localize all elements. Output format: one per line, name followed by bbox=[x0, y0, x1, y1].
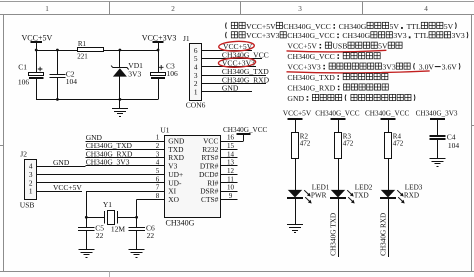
pin number 13 (U1 right) bbox=[227, 159, 235, 167]
svg-text:8: 8 bbox=[156, 192, 160, 200]
junction node top rail / VD1 bbox=[119, 49, 122, 52]
ground of C5 bbox=[78, 250, 94, 258]
pin number 6 (U1 left) bbox=[156, 175, 160, 183]
svg-text:CH340G: CH340G bbox=[339, 22, 367, 31]
wire U1 pin 4 V3 bbox=[86, 165, 165, 167]
svg-text:GND: GND bbox=[53, 158, 70, 167]
wire J1 pin 4 bbox=[202, 66, 256, 68]
pin number 4 (U1 left) bbox=[156, 159, 160, 167]
svg-text:CH340G_VCC: CH340G_VCC bbox=[365, 110, 410, 118]
svg-text:3.6V: 3.6V bbox=[442, 63, 458, 72]
wire LED1 to ground bbox=[295, 198, 297, 224]
svg-text:GND: GND bbox=[222, 84, 239, 93]
wire top rail left bbox=[36, 50, 77, 52]
pin number 11 (U1 right) bbox=[227, 175, 234, 183]
LED LED2 (TXD) bbox=[330, 184, 373, 204]
resistor R2 value 472 bbox=[292, 133, 311, 159]
svg-text:VCC+5V: VCC+5V bbox=[53, 183, 82, 192]
junction node bottom rail / C2 bbox=[56, 98, 59, 101]
net label CH340G_TXD (U1 pin 2) bbox=[86, 141, 133, 150]
svg-text:1: 1 bbox=[156, 134, 160, 142]
capacitor C5 value 22 bbox=[78, 217, 104, 249]
svg-text:5V: 5V bbox=[389, 22, 399, 31]
red annotation ellipse around VCC+3V3 bbox=[218, 57, 256, 68]
wire J2 pin 3 to U1 UD+ bbox=[36, 174, 164, 176]
capacitor C1 value 106 (polarized) bbox=[18, 50, 44, 99]
pin number 9 (U1 right) bbox=[229, 192, 233, 200]
net label CH340G_RXD (J1 pin 2) bbox=[222, 75, 270, 84]
wire J2 pin 1 VCC+5V bbox=[36, 191, 82, 193]
wire R2 to LED1 bbox=[295, 158, 297, 190]
net label CH340G TXD (vertical) bbox=[330, 213, 338, 256]
wire U1 pin 1 GND bbox=[86, 141, 165, 143]
pin stub 15 (U1 right) bbox=[221, 149, 238, 151]
pin number 14 (U1 right) bbox=[227, 150, 235, 158]
LED LED3 (RXD) bbox=[380, 184, 423, 204]
note line 7 bbox=[287, 83, 388, 92]
net label CH340G RXD (vertical) bbox=[380, 213, 388, 256]
note line 3 bbox=[287, 42, 402, 51]
svg-text:106: 106 bbox=[18, 78, 30, 87]
svg-text:VCC+5V: VCC+5V bbox=[22, 33, 53, 42]
wire top rail right bbox=[104, 50, 159, 52]
svg-text:VCC+5V: VCC+5V bbox=[287, 42, 317, 51]
wire bottom rail bbox=[36, 99, 158, 101]
svg-text:2: 2 bbox=[171, 5, 175, 13]
resistor R4 value 472 bbox=[385, 133, 404, 159]
pin number 1 (U1 left) bbox=[156, 134, 160, 142]
svg-text:104: 104 bbox=[66, 77, 78, 86]
power symbol CH340G_VCC (R4) bbox=[365, 110, 410, 133]
svg-text:RXD: RXD bbox=[404, 192, 419, 200]
svg-text:CH340G_VCC: CH340G_VCC bbox=[287, 52, 334, 61]
wire LED2 to CH340G_TXD bbox=[338, 198, 340, 257]
pin stub 9 (U1 right) bbox=[221, 199, 238, 201]
svg-text:TTL: TTL bbox=[407, 22, 421, 31]
svg-text:3V3: 3V3 bbox=[452, 31, 465, 40]
svg-text:5V: 5V bbox=[378, 42, 388, 51]
svg-text:CH340G_RXD: CH340G_RXD bbox=[287, 83, 335, 92]
junction node top rail / C3 bbox=[157, 49, 160, 52]
svg-text:CH340G_VCC: CH340G_VCC bbox=[287, 31, 334, 40]
svg-text:J2: J2 bbox=[20, 149, 27, 158]
svg-text:PWR: PWR bbox=[311, 192, 327, 200]
svg-text:3V3: 3V3 bbox=[382, 63, 395, 72]
svg-text:CH340G: CH340G bbox=[166, 219, 195, 228]
svg-text:3V3: 3V3 bbox=[128, 69, 141, 78]
pin number 8 (U1 left) bbox=[156, 192, 160, 200]
svg-text:CH340G_3V3: CH340G_3V3 bbox=[86, 158, 130, 167]
svg-text:C4: C4 bbox=[447, 132, 456, 141]
ground of power section bbox=[112, 99, 128, 116]
svg-text:CH340G RXD: CH340G RXD bbox=[380, 213, 388, 256]
svg-text:221: 221 bbox=[77, 52, 88, 60]
wire LED3 to CH340G_RXD bbox=[388, 198, 390, 257]
capacitor C4 value 104 bbox=[430, 132, 460, 158]
wire U1 pin 2 TXD bbox=[86, 149, 165, 151]
net label VCC+5V (J1 pin 6) bbox=[223, 42, 253, 51]
svg-text:VCC+5V: VCC+5V bbox=[246, 22, 276, 31]
red underline note line 3 bbox=[287, 50, 387, 52]
svg-text:VCC+3V3: VCC+3V3 bbox=[287, 63, 321, 72]
net label CH340G_3V3 (U1 pin 4) bbox=[86, 158, 130, 167]
svg-text:VCC+3V3: VCC+3V3 bbox=[246, 31, 280, 40]
ground of C6 bbox=[129, 250, 145, 258]
note line 2 bbox=[226, 31, 468, 40]
net label GND (J1 pin 1) bbox=[222, 84, 239, 93]
note line 4 bbox=[287, 52, 380, 61]
svg-text:XO: XO bbox=[168, 195, 179, 204]
svg-text:2: 2 bbox=[156, 142, 160, 150]
wire J1 pin 5 bbox=[202, 58, 262, 60]
wire J1 pin 2 bbox=[202, 83, 266, 85]
svg-text:12M: 12M bbox=[111, 224, 126, 233]
ground of LED1 bbox=[287, 225, 303, 233]
capacitor C3 value 106 (polarized) bbox=[151, 50, 179, 99]
capacitor C2 value 104 bbox=[49, 50, 77, 99]
svg-text:R1: R1 bbox=[78, 40, 87, 48]
red annotation ellipse around VCC+5V bbox=[219, 41, 255, 52]
svg-text:4: 4 bbox=[424, 5, 428, 13]
svg-text:CH340G_VCC: CH340G_VCC bbox=[223, 126, 268, 134]
pin stub 12 (U1 right) bbox=[221, 174, 238, 176]
svg-text:3.0V: 3.0V bbox=[419, 63, 435, 72]
svg-text:104: 104 bbox=[448, 141, 460, 150]
svg-text:106: 106 bbox=[167, 69, 179, 78]
resistor R3 value 472 bbox=[335, 133, 354, 159]
svg-text:USB: USB bbox=[332, 42, 347, 51]
svg-text:LED1: LED1 bbox=[312, 184, 330, 192]
connector J2 USB bbox=[20, 149, 37, 209]
svg-text:22: 22 bbox=[147, 231, 155, 240]
svg-text:22: 22 bbox=[96, 231, 104, 240]
pin number 5 (U1 left) bbox=[156, 167, 160, 175]
svg-text:5: 5 bbox=[156, 167, 160, 175]
svg-text:7: 7 bbox=[156, 184, 160, 192]
svg-text:16: 16 bbox=[227, 134, 235, 142]
svg-text:CON6: CON6 bbox=[186, 101, 206, 110]
wire J2 pin 2 to U1 UD- bbox=[36, 182, 164, 184]
svg-text:3: 3 bbox=[298, 5, 302, 13]
wire U1 pin 3 RXD bbox=[86, 157, 165, 159]
power symbol VCC+5V bbox=[22, 33, 53, 50]
svg-text:GND: GND bbox=[287, 94, 304, 103]
svg-text:1: 1 bbox=[45, 5, 49, 13]
net label CH340G_RXD (U1 pin 3) bbox=[86, 149, 133, 158]
net label VCC+3V3 (J1 pin 4) bbox=[222, 59, 255, 68]
power symbol CH340G_VCC (R3) bbox=[315, 110, 360, 133]
pin number 3 (U1 left) bbox=[156, 150, 160, 158]
power symbol CH340G_VCC (U1 pin 16) bbox=[223, 126, 268, 134]
svg-text:5V: 5V bbox=[444, 22, 454, 31]
svg-text:USB: USB bbox=[20, 200, 35, 209]
svg-text:9: 9 bbox=[229, 192, 233, 200]
svg-text:CH340G_TXD: CH340G_TXD bbox=[287, 73, 335, 82]
svg-text:CH340G_3V3: CH340G_3V3 bbox=[416, 110, 458, 118]
svg-text:472: 472 bbox=[300, 140, 311, 148]
svg-text:Y1: Y1 bbox=[103, 200, 112, 209]
svg-text:12: 12 bbox=[227, 167, 235, 175]
junction node top rail / C2 bbox=[56, 49, 59, 52]
power symbol CH340G_3V3 (C4) bbox=[416, 110, 458, 136]
red underline note line 5 bbox=[287, 71, 430, 73]
svg-text:LED2: LED2 bbox=[355, 184, 373, 192]
pin stub 13 (U1 right) bbox=[221, 165, 238, 167]
wire J1 pin 3 bbox=[202, 75, 266, 77]
pin number 7 (U1 left) bbox=[156, 184, 160, 192]
net label CH340G_TXD (J1 pin 3) bbox=[222, 67, 269, 76]
svg-text:1: 1 bbox=[194, 87, 198, 96]
capacitor C6 value 22 bbox=[128, 217, 155, 249]
wire R3 to LED2 bbox=[338, 158, 340, 190]
wire U1 pin 7 XI to crystal bbox=[86, 191, 164, 217]
svg-text:472: 472 bbox=[343, 140, 354, 148]
zener diode VD1 value 3V3 bbox=[111, 50, 143, 99]
note line 5 bbox=[287, 63, 460, 72]
junction node XI / Y1 / C5 bbox=[85, 216, 88, 219]
power symbol VCC+3V3 bbox=[142, 33, 177, 50]
power symbol VCC+5V (LED rail) bbox=[283, 109, 312, 133]
svg-text:VCC+3V3: VCC+3V3 bbox=[142, 33, 177, 42]
pin stub 11 (U1 right) bbox=[221, 182, 238, 184]
pin number 10 (U1 right) bbox=[227, 184, 235, 192]
net label VCC+5V (J2 pin 1) bbox=[53, 183, 82, 192]
svg-text:15: 15 bbox=[227, 142, 235, 150]
pin number 12 (U1 right) bbox=[227, 167, 235, 175]
svg-text:CH340G_VCC: CH340G_VCC bbox=[315, 110, 360, 118]
connector J1 CON6 bbox=[183, 34, 206, 110]
pin stub 10 (U1 right) bbox=[221, 191, 238, 193]
svg-text:CH340G: CH340G bbox=[342, 31, 370, 40]
junction node top rail / C1 bbox=[35, 49, 38, 52]
note line 6 bbox=[287, 73, 388, 82]
net label GND (U1 pin 1) bbox=[86, 133, 103, 142]
crystal Y1 12M bbox=[86, 200, 136, 234]
resistor R1 value 221 bbox=[77, 40, 103, 61]
svg-text:TXD: TXD bbox=[354, 192, 369, 200]
note line 8 bbox=[287, 94, 415, 103]
svg-text:CH340G TXD: CH340G TXD bbox=[330, 213, 338, 256]
pin number 15 (U1 right) bbox=[227, 142, 235, 150]
net label CH340G_VCC (J1 pin 5) bbox=[222, 50, 269, 59]
svg-text:10: 10 bbox=[227, 184, 235, 192]
op-amp U1 CH340G IC body bbox=[160, 125, 220, 227]
svg-text:C1: C1 bbox=[18, 63, 27, 72]
ground of C4 bbox=[430, 159, 446, 167]
wire J1 pin 6 bbox=[202, 50, 252, 52]
net label GND (J2 pin 4) bbox=[53, 158, 70, 167]
svg-text:472: 472 bbox=[393, 140, 404, 148]
svg-text:U1: U1 bbox=[160, 125, 169, 134]
LED LED1 (PWR) bbox=[287, 184, 330, 204]
svg-text:CTS#: CTS# bbox=[201, 195, 219, 204]
wire J2 pin 4 GND bbox=[36, 166, 85, 168]
svg-text:VCC+5V: VCC+5V bbox=[283, 109, 312, 118]
wire R4 to LED3 bbox=[388, 158, 390, 190]
svg-text:1: 1 bbox=[29, 187, 33, 196]
pin stub 14 (U1 right) bbox=[221, 157, 238, 159]
note line 1 bbox=[226, 22, 457, 31]
wire U1 pin 8 XO to crystal bbox=[137, 199, 165, 217]
wire U1 pin 16 VCC bbox=[221, 134, 244, 142]
junction node bottom rail / VD1 bbox=[119, 98, 122, 101]
svg-text:3V3: 3V3 bbox=[393, 31, 406, 40]
svg-text:6: 6 bbox=[156, 175, 160, 183]
pin number 2 (U1 left) bbox=[156, 142, 160, 150]
wire J1 pin 1 bbox=[202, 91, 252, 93]
svg-text:TTL: TTL bbox=[414, 31, 428, 40]
junction node XO / Y1 / C6 bbox=[135, 216, 138, 219]
svg-text:CH340G_VCC: CH340G_VCC bbox=[283, 22, 330, 31]
svg-text:J1: J1 bbox=[183, 34, 190, 43]
svg-text:LED3: LED3 bbox=[405, 184, 423, 192]
pin number 16 (U1 right) bbox=[227, 134, 235, 142]
